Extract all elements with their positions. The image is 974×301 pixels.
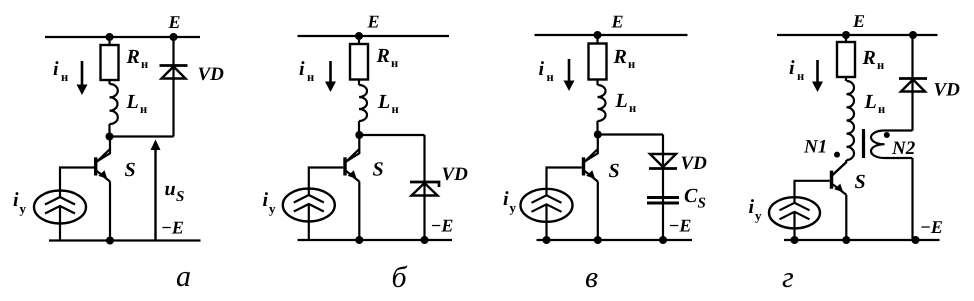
wire: iу source to base (б) [309,168,344,196]
svg-text:−E: −E [669,216,692,236]
wire: collector lead (в) [584,135,598,162]
junction: emitter on -E rail (а) [106,237,114,245]
svg-text:−E: −E [161,218,184,238]
arrow: iн current direction (в) [564,59,575,91]
wire: Lн to collector node (б) [358,121,360,135]
svg-text:u: u [165,178,176,200]
svg-text:i: i [789,57,795,79]
svg-text:н: н [392,102,399,116]
wire: VD branch vertical (г) [911,35,913,131]
svg-text:−E: −E [920,217,943,237]
polarity dot: N1 winding (г) [834,152,840,158]
wire: iу source to base (а) [60,168,94,198]
junction: emitter on -E rail (б) [355,236,363,244]
svg-text:VD: VD [198,64,225,85]
junction: iу source on -E rail (в) [543,236,551,244]
inductor Lн (б) [359,85,367,121]
svg-text:у: у [269,201,276,216]
wire: collector lead (а) [96,137,110,162]
wire: rail to Rн (а) [108,37,110,45]
junction: VD branch on top rail (а) [170,33,178,41]
svg-text:б: б [392,261,408,294]
wire: iу source to base (г) [795,181,830,203]
svg-text:S: S [698,196,706,212]
svg-text:S: S [125,159,136,181]
wire: Rн to Lн (б) [358,80,360,86]
arrow: iн current direction (б) [325,61,336,92]
svg-text:VD: VD [681,153,708,174]
wire: +E top rail (circuit а) [45,36,200,38]
wire: Rн to Lн (а) [108,80,110,84]
diode VD (г) [899,79,927,92]
svg-text:N1: N1 [803,137,827,158]
inductor Lн / winding N1 coil (г) [847,81,855,160]
wire: Lн to collector node (в) [596,121,598,135]
wire: iу arrow shaft to -E rail (г) [793,212,795,240]
wire: iу arrow shaft to -E rail (б) [308,204,310,240]
svg-text:н: н [140,102,147,116]
winding N2 (г) [871,130,884,158]
junction: VD branch on -E rail (б) [421,236,429,244]
diode VD (б) [410,182,439,196]
resistor Rн (г) [837,42,855,77]
junction: collector node (а) [106,133,114,141]
svg-text:R: R [862,47,876,69]
svg-text:VD: VD [442,164,469,185]
svg-text:E: E [168,12,181,32]
wire: N2 bottom to right branch (г) [885,157,913,159]
svg-text:S: S [176,189,184,205]
wire: VD branch vertical (б) [423,135,425,240]
arrow: iн current direction (г) [812,60,823,92]
current source iу (в) [521,189,573,222]
svg-text:E: E [611,12,624,32]
svg-text:E: E [367,12,380,32]
transistor S (б) [345,149,359,182]
wire: collector node to VD branch (б) [359,134,424,136]
capacitor CS (в) [647,198,679,204]
arrow: iн current direction (а) [77,61,88,95]
svg-text:R: R [613,46,627,68]
wire: rail to Rн (г) [845,35,847,42]
svg-text:н: н [141,57,148,71]
svg-text:н: н [797,69,804,83]
wire: -E bottom rail (б) [298,239,453,241]
wire: collector lead (г) [832,160,846,175]
junction: snubber on -E rail (в) [659,236,667,244]
svg-text:у: у [510,200,517,215]
polarity dot: N2 winding (г) [884,132,890,138]
wire: iу arrow shaft to -E rail (а) [59,206,61,241]
junction: Rн branch on top rail (г) [842,31,850,39]
svg-text:i: i [503,188,509,210]
svg-text:S: S [855,171,866,193]
wire: Rн to Lн (в) [596,80,598,86]
svg-text:i: i [749,196,755,218]
wire: snubber branch vertical (в) [662,135,664,241]
junction: Rн branch on top rail (в) [594,31,602,39]
junction: N2 return on -E rail (г) [912,236,920,244]
wire: iу source to base (в) [547,168,582,196]
svg-text:у: у [20,201,27,216]
junction: emitter on -E rail (г) [842,236,850,244]
svg-text:S: S [609,160,620,182]
svg-text:L: L [864,91,877,113]
resistor Rн (в) [589,44,607,80]
svg-text:н: н [628,57,635,71]
svg-text:н: н [391,56,398,70]
svg-text:VD: VD [934,80,961,101]
resistor Rн (а) [101,45,119,80]
junction: collector node (в) [594,131,602,139]
svg-text:i: i [539,58,545,80]
wire: -E bottom rail (в) [537,239,693,241]
svg-text:−E: −E [431,216,454,236]
svg-text:у: у [755,208,762,223]
wire: iу arrow shaft to -E rail (в) [545,204,547,240]
diode VD (в) [649,154,677,169]
svg-text:а: а [176,260,191,293]
arrow: uS voltage across switch (а) [151,140,161,241]
svg-text:н: н [878,102,885,116]
junction: Rн branch on top rail (б) [355,32,363,40]
svg-text:R: R [376,45,390,67]
current source iу (б) [283,189,335,222]
wire: +E top rail (circuit б) [298,35,450,37]
diode VD (а) [160,66,188,79]
junction: iу source on -E rail (г) [791,236,799,244]
wire: +E top rail (circuit г) [777,34,938,36]
transformer core (г) [862,129,865,158]
current source iу (г) [769,197,820,228]
svg-text:L: L [126,91,139,113]
resistor Rн (б) [350,44,368,80]
svg-text:L: L [377,91,390,113]
transistor S (г) [832,162,847,195]
wire: N2 return to -E rail (г) [911,158,913,240]
svg-text:i: i [299,58,305,80]
inductor Lн (а) [110,84,118,124]
wire: +E top rail (circuit в) [535,34,688,36]
transistor S (а) [96,149,110,182]
wire: -E bottom rail (г) [784,239,940,241]
wire: emitter to -E rail (в) [597,182,599,241]
current source iу (а) [34,191,86,224]
wire: emitter to -E rail (б) [358,182,360,241]
wire: -E bottom rail (а) [49,239,201,241]
svg-text:R: R [126,46,140,68]
inductor Lн (в) [598,85,606,121]
svg-text:н: н [547,70,554,84]
wire: VD branch vertical (а) [172,37,174,137]
wire: Lн to collector node (а) [108,124,110,137]
wire: collector lead (б) [346,135,360,162]
svg-text:н: н [61,70,68,84]
svg-text:N2: N2 [891,138,916,159]
svg-text:в: в [585,261,598,294]
transistor S (в) [584,149,598,182]
svg-text:i: i [13,189,19,211]
wire: collector node to snubber branch (в) [598,133,663,135]
wire: Rн to Lн (г) [845,77,847,81]
svg-text:н: н [629,101,636,115]
wire: emitter to -E rail (а) [109,182,111,241]
svg-text:н: н [307,70,314,84]
wire: rail to Rн (в) [596,35,598,44]
wire: N2 top to VD branch (г) [885,129,913,131]
wire: rail to Rн (б) [358,36,360,44]
junction: emitter on -E rail (в) [594,236,602,244]
svg-text:S: S [373,159,384,181]
svg-text:н: н [877,58,884,72]
wire: emitter to -E rail (г) [845,195,847,240]
junction: VD branch on top rail (г) [909,31,917,39]
svg-text:L: L [615,90,628,112]
svg-text:i: i [263,189,269,211]
junction: Rн branch on top rail (а) [106,33,114,41]
svg-text:C: C [684,185,698,207]
svg-text:E: E [852,11,865,31]
svg-text:г: г [782,261,794,294]
svg-text:i: i [53,58,59,80]
wire: collector node to VD branch (а) [110,135,174,137]
junction: collector node (б) [355,131,363,139]
